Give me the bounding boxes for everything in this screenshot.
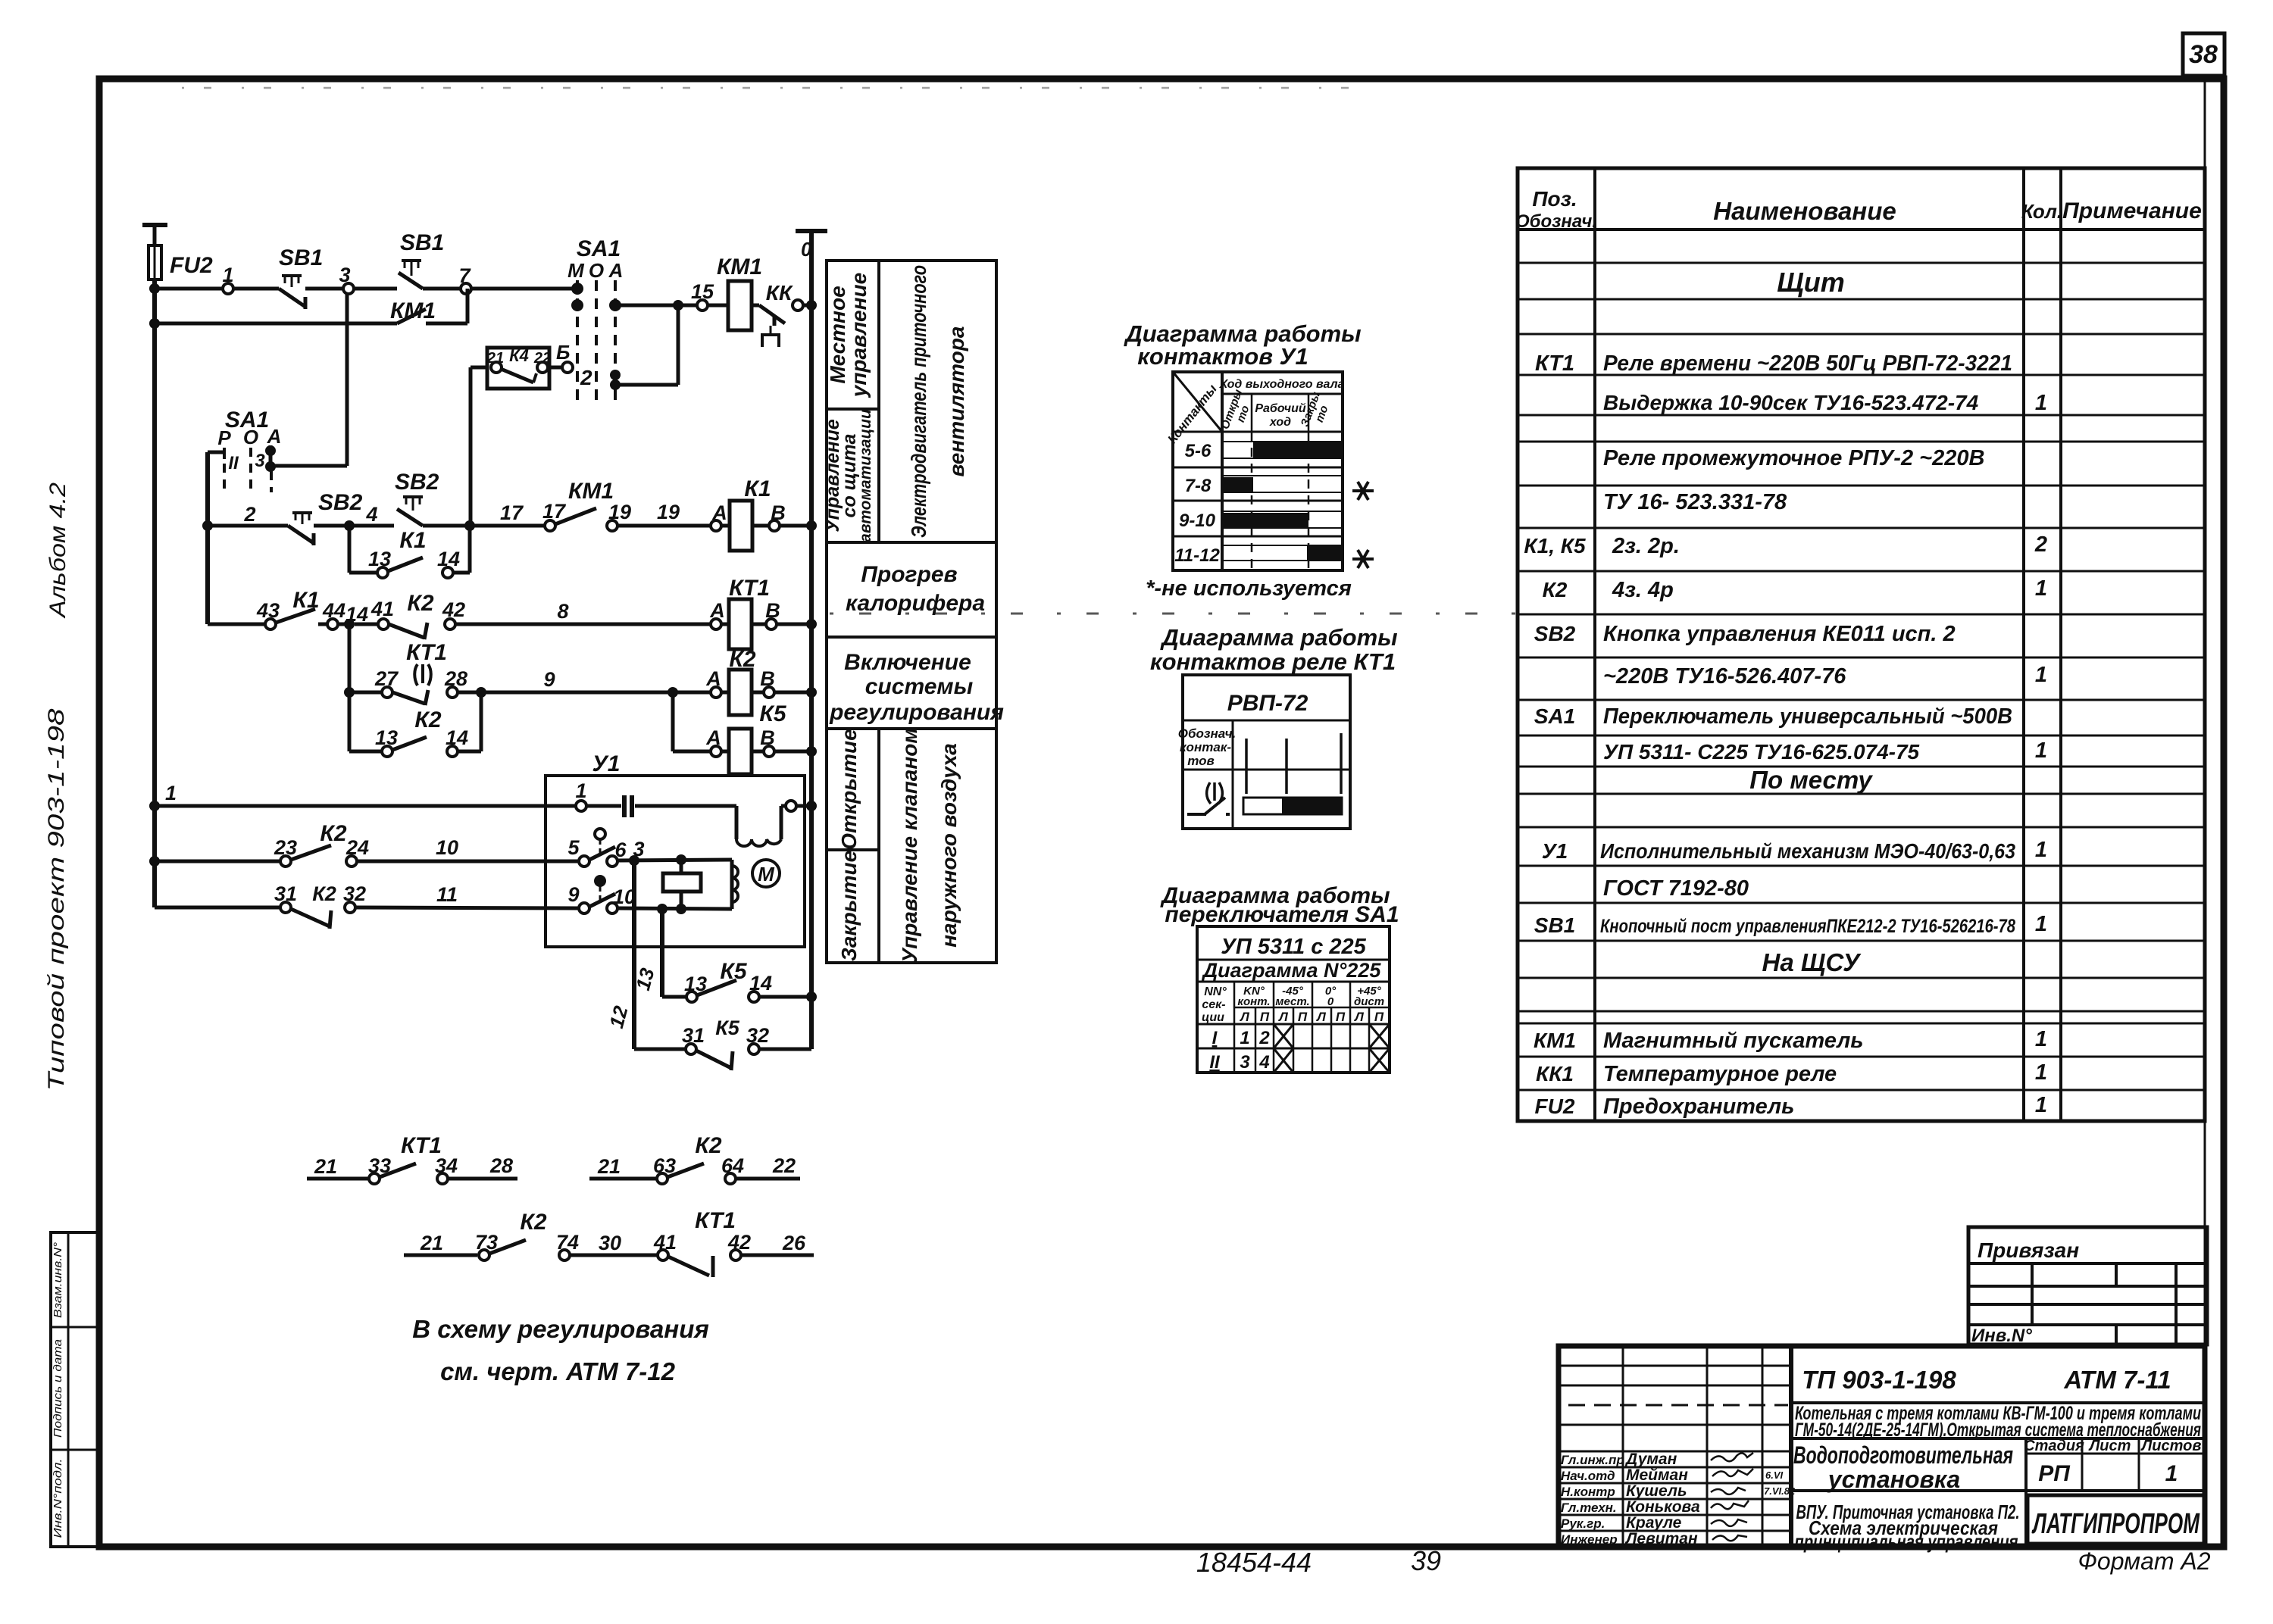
svg-text:FU2: FU2 (1535, 1095, 1575, 1118)
node 1 (222, 264, 233, 294)
KT1 diagram contact symbol (1187, 782, 1230, 814)
wire node7 to SA1 (471, 287, 577, 291)
svg-text:ции: ции (1202, 1011, 1224, 1024)
svg-text:11-12: 11-12 (1174, 545, 1220, 566)
signature rows text (1561, 1451, 1796, 1547)
svg-text:КК: КК (766, 281, 793, 304)
U1 diagram bar row 9-10 (1222, 513, 1308, 527)
row SB2 name (1534, 622, 1956, 646)
svg-text:2з. 2р.: 2з. 2р. (1612, 534, 1680, 558)
function boxes grid (827, 261, 996, 963)
asterisk marks (1352, 482, 1374, 568)
row SB2 line2 (1603, 663, 2047, 689)
wire line 10 to U1 (357, 836, 579, 861)
wire line 11 to U1 (355, 883, 579, 908)
svg-text:дист: дист (1354, 995, 1384, 1008)
svg-text:2: 2 (243, 503, 255, 526)
svg-text:0: 0 (801, 238, 812, 261)
svg-text:К1, К5: К1, К5 (1524, 534, 1586, 557)
svg-text:Электродвигатель приточного: Электродвигатель приточного (907, 265, 930, 538)
wire rung2 start (202, 503, 288, 531)
svg-text:А: А (705, 726, 721, 749)
svg-text:КМ1: КМ1 (390, 298, 436, 323)
svg-text:К2: К2 (414, 707, 441, 732)
sheet number box 38 (2183, 33, 2225, 76)
svg-text:Выдержка 10-90сек ТУ16-523.47: Выдержка 10-90сек ТУ16-523.472-74 (1603, 391, 1979, 414)
svg-text:Кол.: Кол. (2021, 200, 2062, 223)
label Включение системы регулирования (829, 650, 1004, 725)
wire U1 rung 5-6 to winding (617, 854, 732, 866)
contact K5 31-32 (NC) (634, 1017, 811, 1070)
contact SB1.1 (NC pushbutton) (233, 245, 343, 309)
svg-text:*-не используется: *-не используется (1146, 576, 1352, 601)
svg-text:Гл.техн.: Гл.техн. (1561, 1501, 1617, 1515)
node 7 (458, 264, 471, 294)
svg-text:К5: К5 (715, 1017, 740, 1039)
svg-text:28: 28 (489, 1154, 513, 1177)
wire line 13 vertical (631, 909, 662, 997)
svg-text:К2: К2 (312, 882, 336, 905)
svg-text:1: 1 (2035, 838, 2047, 862)
title diagram U1 contacts (1123, 320, 1361, 370)
svg-text:А: А (705, 667, 721, 690)
svg-text:2: 2 (2034, 532, 2047, 557)
svg-text:19: 19 (657, 501, 680, 523)
svg-text:Гл.инж.пр: Гл.инж.пр (1561, 1453, 1624, 1467)
svg-text:Примечание: Примечание (2062, 198, 2202, 223)
svg-text:К2: К2 (407, 591, 433, 616)
motor M circle (752, 860, 780, 887)
SCHEMATIC (142, 225, 827, 1385)
title diagram KT1 relay (1150, 624, 1398, 675)
bottom margin text 18454-44 (1196, 1547, 1312, 1578)
svg-text:КТ1: КТ1 (1535, 351, 1574, 376)
section header Щит (1777, 267, 1845, 298)
row K2 (1543, 576, 2047, 602)
SA1 diagram row II (1209, 1048, 1390, 1073)
coil K5 (673, 692, 811, 774)
svg-text:К2: К2 (1543, 578, 1568, 601)
svg-text:3: 3 (339, 264, 350, 286)
cell TP 903-1-198 / ATM 7-11 (1791, 1366, 2205, 1403)
svg-text:1: 1 (2035, 1093, 2047, 1117)
svg-text:34: 34 (435, 1154, 458, 1177)
label Местное управление (826, 273, 871, 398)
svg-text:На ЩСУ: На ЩСУ (1762, 948, 1862, 976)
svg-text:SB1: SB1 (400, 230, 444, 255)
svg-text:41: 41 (370, 598, 394, 620)
svg-text:КТ1: КТ1 (695, 1208, 736, 1233)
U1 diagram bar row 7-8 (1222, 477, 1253, 492)
node 15 (691, 280, 714, 311)
contact chain K2 63-64 bottom (589, 1133, 800, 1184)
svg-text:К1: К1 (744, 476, 771, 501)
row SA1 line2 (1603, 739, 2047, 764)
svg-text:6.VI: 6.VI (1765, 1469, 1784, 1481)
svg-text:Магнитный пускатель: Магнитный пускатель (1603, 1029, 1863, 1053)
DIAGRAMS (1123, 320, 1399, 1073)
svg-text:Управление клапаном: Управление клапаном (898, 728, 921, 963)
svg-text:1: 1 (2035, 912, 2047, 936)
row intermediate relay (1603, 446, 1984, 470)
U1 diagram header texts (1165, 378, 1344, 446)
svg-text:КМ1: КМ1 (717, 255, 762, 280)
contact KM1 (NO) on rung2 (542, 479, 631, 531)
contact KT1 27-28 (NC time) (344, 640, 486, 705)
row GOST (1603, 876, 1749, 901)
svg-text:Взам.инв.N°: Взам.инв.N° (52, 1242, 64, 1318)
brake relay in U1 (663, 860, 701, 909)
margin stamp label Инв.N подл. (52, 1459, 64, 1538)
privyazan box (1968, 1227, 2207, 1346)
svg-text:Л: Л (1353, 1010, 1364, 1024)
svg-text:19: 19 (608, 501, 631, 523)
U1 diagram track lines (1222, 442, 1343, 561)
component table grid (1518, 168, 2205, 1121)
cell LATGIPROPROM (2028, 1495, 2205, 1544)
svg-text:В: В (765, 599, 780, 622)
svg-text:ход: ход (1269, 416, 1291, 429)
svg-text:В: В (760, 726, 775, 749)
svg-text:17: 17 (500, 501, 524, 524)
row KT1 line2 (1603, 391, 2047, 415)
svg-text:контактов реле КТ1: контактов реле КТ1 (1150, 648, 1396, 675)
svg-text:26: 26 (782, 1232, 806, 1254)
svg-text:Б: Б (556, 341, 570, 364)
row SB1 (1534, 912, 2047, 937)
svg-text:7: 7 (458, 264, 471, 287)
stage sheet header (1791, 1438, 2205, 1547)
svg-text:42: 42 (727, 1231, 751, 1254)
SA1 diagram column lines (1234, 982, 1390, 1073)
svg-text:По месту: По месту (1749, 766, 1873, 794)
coil KT1 (709, 576, 811, 649)
contact K2 23-24 (274, 821, 369, 867)
svg-text:1: 1 (2035, 576, 2047, 601)
svg-text:П: П (1374, 1010, 1384, 1024)
wire rung2 to coil K1 (617, 501, 711, 526)
svg-text:Инв.N°: Инв.N° (1971, 1326, 2032, 1346)
svg-text:~220В ТУ16-526.407-76: ~220В ТУ16-526.407-76 (1603, 664, 1846, 689)
svg-text:6: 6 (614, 839, 627, 861)
svg-text:1: 1 (2165, 1461, 2178, 1486)
wire SA1 bypass loop (615, 305, 678, 385)
svg-text:14: 14 (437, 548, 460, 570)
svg-text:13: 13 (368, 548, 391, 570)
contact KM1 aux (self-hold) (155, 289, 467, 323)
svg-text:А: А (267, 425, 282, 448)
svg-text:SB2: SB2 (1534, 622, 1576, 645)
svg-text:21: 21 (486, 350, 504, 367)
svg-text:14: 14 (446, 726, 468, 749)
svg-text:Р: Р (217, 426, 231, 449)
wire vertical junction 44 down (348, 624, 352, 751)
svg-text:КТ1: КТ1 (729, 576, 770, 601)
svg-text:Кнопочный пост управленияПКЕ21: Кнопочный пост управленияПКЕ212-2 ТУ16-5… (1600, 916, 2015, 937)
svg-text:SB2: SB2 (395, 470, 439, 495)
svg-text:А: А (608, 259, 624, 282)
wire rung3 start (208, 623, 265, 626)
coil K1 (711, 476, 811, 551)
svg-text:А: А (711, 501, 727, 524)
margin text Альбом 4.2 (45, 483, 70, 620)
svg-text:Рабочий: Рабочий (1255, 402, 1306, 415)
svg-text:4з. 4р: 4з. 4р (1612, 578, 1674, 602)
svg-text:В: В (771, 501, 786, 524)
svg-text:1: 1 (1240, 1028, 1249, 1048)
cell boiler house description (1791, 1403, 2205, 1441)
wire rung1 segment bus to node1 (155, 287, 224, 291)
svg-text:наружного воздуха: наружного воздуха (937, 743, 961, 948)
cell VPU description (1795, 1501, 2020, 1553)
svg-text:Переключатель универсальный: Переключатель универсальный ~500В (1603, 704, 2012, 729)
svg-text:9: 9 (543, 668, 555, 691)
svg-text:1: 1 (2035, 391, 2047, 415)
svg-text:23: 23 (274, 836, 297, 859)
svg-text:Щит: Щит (1777, 267, 1845, 298)
svg-text:Водоподготовительная: Водоподготовительная (1793, 1441, 2013, 1469)
svg-text:1: 1 (2035, 1060, 2047, 1085)
svg-text:РП: РП (2038, 1461, 2071, 1486)
svg-text:установка: установка (1827, 1466, 1960, 1493)
svg-text:FU2: FU2 (170, 253, 213, 278)
svg-text:44: 44 (322, 599, 345, 622)
wire U1 rung 9-10 (617, 904, 732, 914)
svg-text:22: 22 (772, 1154, 796, 1177)
svg-text:ТП 903-1-198: ТП 903-1-198 (1802, 1366, 1956, 1394)
svg-text:В схему регулирования: В схему регулирования (412, 1315, 709, 1343)
svg-text:Инв.N°подл.: Инв.N°подл. (52, 1459, 64, 1538)
svg-text:28: 28 (444, 667, 467, 690)
svg-text:SA1: SA1 (1534, 704, 1575, 728)
wire K4 box to rung2 vertical (471, 367, 487, 526)
svg-text:контактов У1: контактов У1 (1137, 343, 1308, 370)
note text to regulation circuit (412, 1315, 709, 1343)
svg-text:сек-: сек- (1202, 998, 1225, 1011)
svg-text:Формат А2: Формат А2 (2078, 1547, 2210, 1575)
LABELBOXES (822, 261, 1004, 963)
wire left bus (149, 280, 160, 907)
svg-text:Крауле: Крауле (1626, 1514, 1682, 1532)
svg-text:см. черт. АТМ 7-12: см. черт. АТМ 7-12 (440, 1357, 676, 1385)
svg-text:К2: К2 (729, 647, 755, 672)
svg-text:О: О (589, 259, 604, 282)
section header На ЩСУ (1762, 948, 1862, 976)
svg-text:Подпись и дата: Подпись и дата (52, 1339, 64, 1438)
svg-text:2: 2 (580, 366, 592, 389)
svg-text:переключателя SA1: переключателя SA1 (1165, 902, 1399, 927)
KT1 diagram time bar (1243, 798, 1342, 814)
contact K2 41-42 (NC) (355, 591, 465, 639)
KT1 diagram tick marks (1246, 733, 1341, 794)
svg-text:27: 27 (374, 667, 399, 690)
contact chain K2 73-74 + KT1 41-42 bottom (404, 1208, 814, 1277)
svg-text:Ход выходного вала: Ход выходного вала (1219, 378, 1345, 391)
contact U1 5-6 (567, 829, 644, 867)
contact K5 13-14 (662, 959, 811, 1002)
svg-text:К1: К1 (292, 588, 319, 613)
SA1 diagram row I (1212, 1024, 1390, 1048)
svg-text:Реле промежуточное РПУ-2 ~: Реле промежуточное РПУ-2 ~220В (1603, 446, 1984, 470)
contact K1 43-44 (256, 588, 368, 629)
svg-text:системы: системы (865, 674, 974, 699)
svg-text:2: 2 (1258, 1028, 1270, 1048)
signature scribbles (1711, 1453, 1753, 1541)
svg-text:SB2: SB2 (318, 490, 363, 515)
svg-text:Мейман: Мейман (1626, 1466, 1688, 1484)
coil K2 (705, 647, 811, 715)
switch SA1 lower (Р О А) (208, 408, 281, 492)
svg-text:64: 64 (721, 1154, 744, 1177)
svg-text:13: 13 (375, 726, 398, 749)
table header texts (1515, 187, 2202, 232)
svg-text:Конькова: Конькова (1626, 1498, 1700, 1516)
wire SA1 lower bracket vertical (205, 452, 210, 624)
svg-text:NN°: NN° (1204, 985, 1227, 998)
control winding U1 (732, 860, 738, 909)
svg-text:А: А (709, 599, 725, 622)
svg-text:П: П (1298, 1010, 1308, 1024)
svg-text:41: 41 (653, 1231, 677, 1254)
margin stamp label Взам.инв.N (52, 1242, 64, 1318)
motor winding U1 (736, 801, 811, 846)
svg-text:КМ1: КМ1 (1534, 1029, 1576, 1052)
svg-text:15: 15 (691, 280, 714, 303)
wire rung4 to coil K2 (481, 668, 711, 698)
svg-text:Реле времени ~220В 50Гц РВП-: Реле времени ~220В 50Гц РВП-72-3221 (1603, 351, 2012, 376)
svg-text:Диаграмма N°225: Диаграмма N°225 (1202, 959, 1382, 982)
wire line 12 vertical (605, 860, 634, 1049)
svg-text:РВП-72: РВП-72 (1227, 691, 1308, 716)
svg-text:КМ1: КМ1 (568, 479, 614, 504)
node 3 (339, 264, 354, 294)
svg-text:5-6: 5-6 (1185, 441, 1212, 461)
note not used (1146, 576, 1352, 601)
label Прогрев калорифера (846, 562, 985, 616)
svg-text:21: 21 (314, 1155, 337, 1178)
svg-text:74: 74 (556, 1231, 579, 1254)
svg-text:1: 1 (222, 264, 233, 286)
svg-text:14: 14 (749, 972, 772, 995)
svg-text:П: П (1336, 1010, 1346, 1024)
svg-text:Закрытие: Закрытие (837, 851, 861, 961)
svg-text:Обознач.: Обознач. (1178, 726, 1237, 741)
contact K2 13-14 (parallel KT1) (349, 692, 481, 757)
svg-text:УП 5311- С225 ТУ16-625.074: УП 5311- С225 ТУ16-625.074-75 (1603, 740, 1920, 764)
svg-text:Привязан: Привязан (1978, 1238, 2079, 1262)
svg-text:Л: Л (1239, 1010, 1249, 1024)
svg-text:К1: К1 (399, 528, 426, 553)
TITLEBLOCK (1559, 1227, 2207, 1553)
svg-text:принципиальная управления: принципиальная управления (1795, 1530, 2018, 1553)
table SA1 switch diagram (1197, 926, 1390, 1073)
svg-text:21: 21 (420, 1232, 443, 1254)
U1 diagram bar row 11-12 (1307, 546, 1341, 560)
label Управление со щита автоматизации (822, 409, 874, 542)
svg-text:Рук.гр.: Рук.гр. (1561, 1516, 1605, 1531)
svg-text:7.VI.82: 7.VI.82 (1764, 1485, 1796, 1497)
svg-text:Обознач.: Обознач. (1515, 211, 1597, 232)
LEFTMARGIN (44, 483, 99, 1547)
svg-text:Л: Л (1277, 1010, 1288, 1024)
row KM1 (1534, 1027, 2047, 1053)
row SA1 name (1534, 704, 2012, 729)
U1 diagram bar row 5-6 (1253, 442, 1341, 458)
svg-text:Листов: Листов (2140, 1438, 2202, 1454)
svg-text:9-10: 9-10 (1179, 511, 1216, 531)
contact SB2.1 (NC pushbutton) (288, 490, 363, 545)
svg-text:1: 1 (2035, 739, 2047, 763)
signature table grid (1559, 1346, 1791, 1547)
svg-text:II: II (1209, 1052, 1221, 1073)
svg-text:Включение: Включение (844, 650, 971, 675)
label Открытие (837, 729, 861, 849)
wire rung3 to coil KT1 (455, 600, 711, 624)
svg-text:М: М (758, 863, 775, 885)
svg-text:УП 5311 с 225: УП 5311 с 225 (1221, 935, 1366, 959)
svg-text:Думан: Думан (1624, 1451, 1677, 1468)
title diagram SA1 switch (1159, 883, 1399, 927)
svg-text:SA1: SA1 (577, 236, 621, 261)
svg-text:П: П (1260, 1010, 1270, 1024)
wire rung line 11 (155, 906, 281, 910)
svg-text:Л: Л (1315, 1010, 1326, 1024)
table KT1 RVP-72 diagram (1178, 675, 1350, 829)
scan fold dotted line top (182, 87, 1356, 89)
svg-text:1: 1 (165, 782, 177, 804)
wire rung2 to contact KM1 (470, 501, 545, 526)
svg-text:Лист: Лист (2088, 1438, 2131, 1454)
svg-text:4: 4 (365, 503, 377, 526)
svg-text:К5: К5 (759, 701, 786, 726)
U1 diagram row labels (1174, 441, 1220, 566)
svg-text:К2: К2 (695, 1133, 721, 1158)
svg-text:КТ1: КТ1 (406, 640, 447, 665)
svg-text:конт.: конт. (1237, 995, 1270, 1008)
row KK1 (1536, 1060, 2047, 1086)
row TU line (1603, 490, 1787, 514)
svg-text:Поз.: Поз. (1532, 187, 1577, 211)
svg-text:II: II (228, 453, 239, 473)
wire rung line 1 (capacitor line) (155, 779, 587, 811)
table U1 contact diagram (1173, 372, 1343, 570)
wire rung line 10 (155, 860, 281, 864)
wire right bus 0 (796, 231, 827, 1049)
svg-text:О: О (243, 426, 258, 448)
svg-text:К2: К2 (320, 821, 346, 846)
contact K2 31-32 (NC) (274, 882, 366, 929)
svg-text:18454-44: 18454-44 (1196, 1547, 1312, 1578)
note text see drawing ATM 7-12 (440, 1357, 676, 1385)
svg-text:43: 43 (256, 599, 280, 622)
svg-text:30: 30 (599, 1232, 621, 1254)
svg-text:3: 3 (255, 451, 265, 471)
row FU2 (1535, 1093, 2048, 1119)
contact KK thermal relay (752, 281, 811, 347)
svg-text:К5: К5 (720, 959, 747, 984)
svg-text:32: 32 (746, 1024, 769, 1047)
svg-text:31: 31 (682, 1024, 705, 1047)
svg-text:Диаграмма работы: Диаграмма работы (1159, 624, 1397, 651)
svg-text:11: 11 (436, 883, 458, 906)
svg-text:3: 3 (1240, 1052, 1250, 1073)
svg-text:Местное: Местное (826, 286, 849, 383)
margin stamp label Подпись и дата (52, 1339, 64, 1438)
actuator U1 box (546, 751, 805, 947)
svg-text:вентилятора: вентилятора (945, 326, 968, 477)
svg-text:тов: тов (1187, 754, 1215, 768)
svg-text:1: 1 (2035, 1027, 2047, 1051)
